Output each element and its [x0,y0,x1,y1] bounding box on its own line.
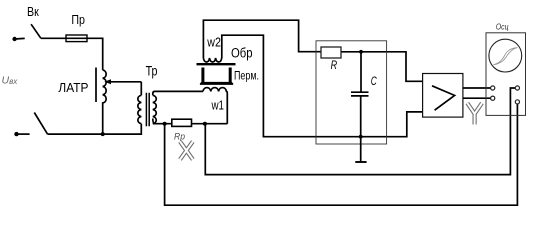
wire w2 left to resistor R [203,20,321,58]
oscilloscope terminal lower left [491,96,495,100]
switch Вк blade [31,24,41,38]
junction dot B (Rр right) [203,122,207,126]
sample core bar Обр [197,63,236,65]
svg-text:w1: w1 [211,97,224,112]
fuse Пр [66,35,87,42]
ЛАТР core bar [95,68,97,103]
wire osc X input return [205,88,515,175]
wire switch to fuse and to ЛАТР [41,38,103,70]
resistor R [321,47,341,58]
junction dot R-C [359,50,363,54]
wire Rр to w1 bottom [192,123,228,125]
wire amp output upper [463,87,491,89]
transformer Тр secondary winding [153,95,156,123]
wire bottom input to Тр primary bottom [48,124,142,134]
wire tap to Тр primary top [140,82,142,96]
amplifier symbol [432,86,455,110]
junction dot C bottom [359,135,363,139]
wire amp output lower [463,97,491,99]
label Y channel symbol [467,103,482,125]
terminal dot bottom input [14,132,18,136]
svg-text:Тр: Тр [146,64,158,79]
oscilloscope terminal upper right [515,86,519,90]
svg-text:Rр: Rр [174,132,185,143]
svg-text:ЛАТР: ЛАТР [58,80,88,95]
oscilloscope terminal lower right [515,100,519,104]
wire R output to amplifier upper input [341,52,423,82]
wire w2 right to amplifier lower input [222,35,423,137]
wire bottom input stub [17,133,30,135]
terminal dot top input [12,37,16,41]
oscilloscope screen [489,39,522,72]
oscilloscope trace [493,48,517,65]
svg-text:R: R [331,60,338,72]
label X channel symbol [180,142,193,160]
svg-text:Перм.: Перм. [234,68,259,82]
permalloy yoke Перм [200,68,233,85]
junction dot ЛАТР bottom [101,132,105,136]
integrating network box [316,41,387,144]
oscilloscope terminal upper left [491,86,495,90]
winding w1 [203,88,227,124]
svg-text:Пр: Пр [71,12,85,27]
wire top input stub [15,37,25,40]
wire secondary bottom to Rр [153,119,172,124]
svg-text:Вк: Вк [27,4,39,19]
svg-text:w2: w2 [206,35,220,50]
amplifier box [423,74,463,118]
winding w2 [203,58,221,62]
junction dot A (secondary bottom left) [163,122,167,126]
oscilloscope Осц box [486,33,526,116]
svg-text:C: C [371,76,377,88]
autotransformer ЛАТР winding [103,70,106,134]
wire osc bottom return [165,104,518,205]
switch blade bottom [34,113,47,135]
svg-text:Обр: Обр [231,46,253,61]
svg-text:Осц: Осц [496,21,509,31]
wire secondary top to w1 [153,91,203,95]
ЛАТР tap arrow [109,81,142,83]
ground [355,161,366,163]
transformer Тр primary winding [138,95,141,123]
resistor Rр [172,119,192,126]
transformer Тр core [146,93,149,127]
capacitor C [351,52,369,162]
